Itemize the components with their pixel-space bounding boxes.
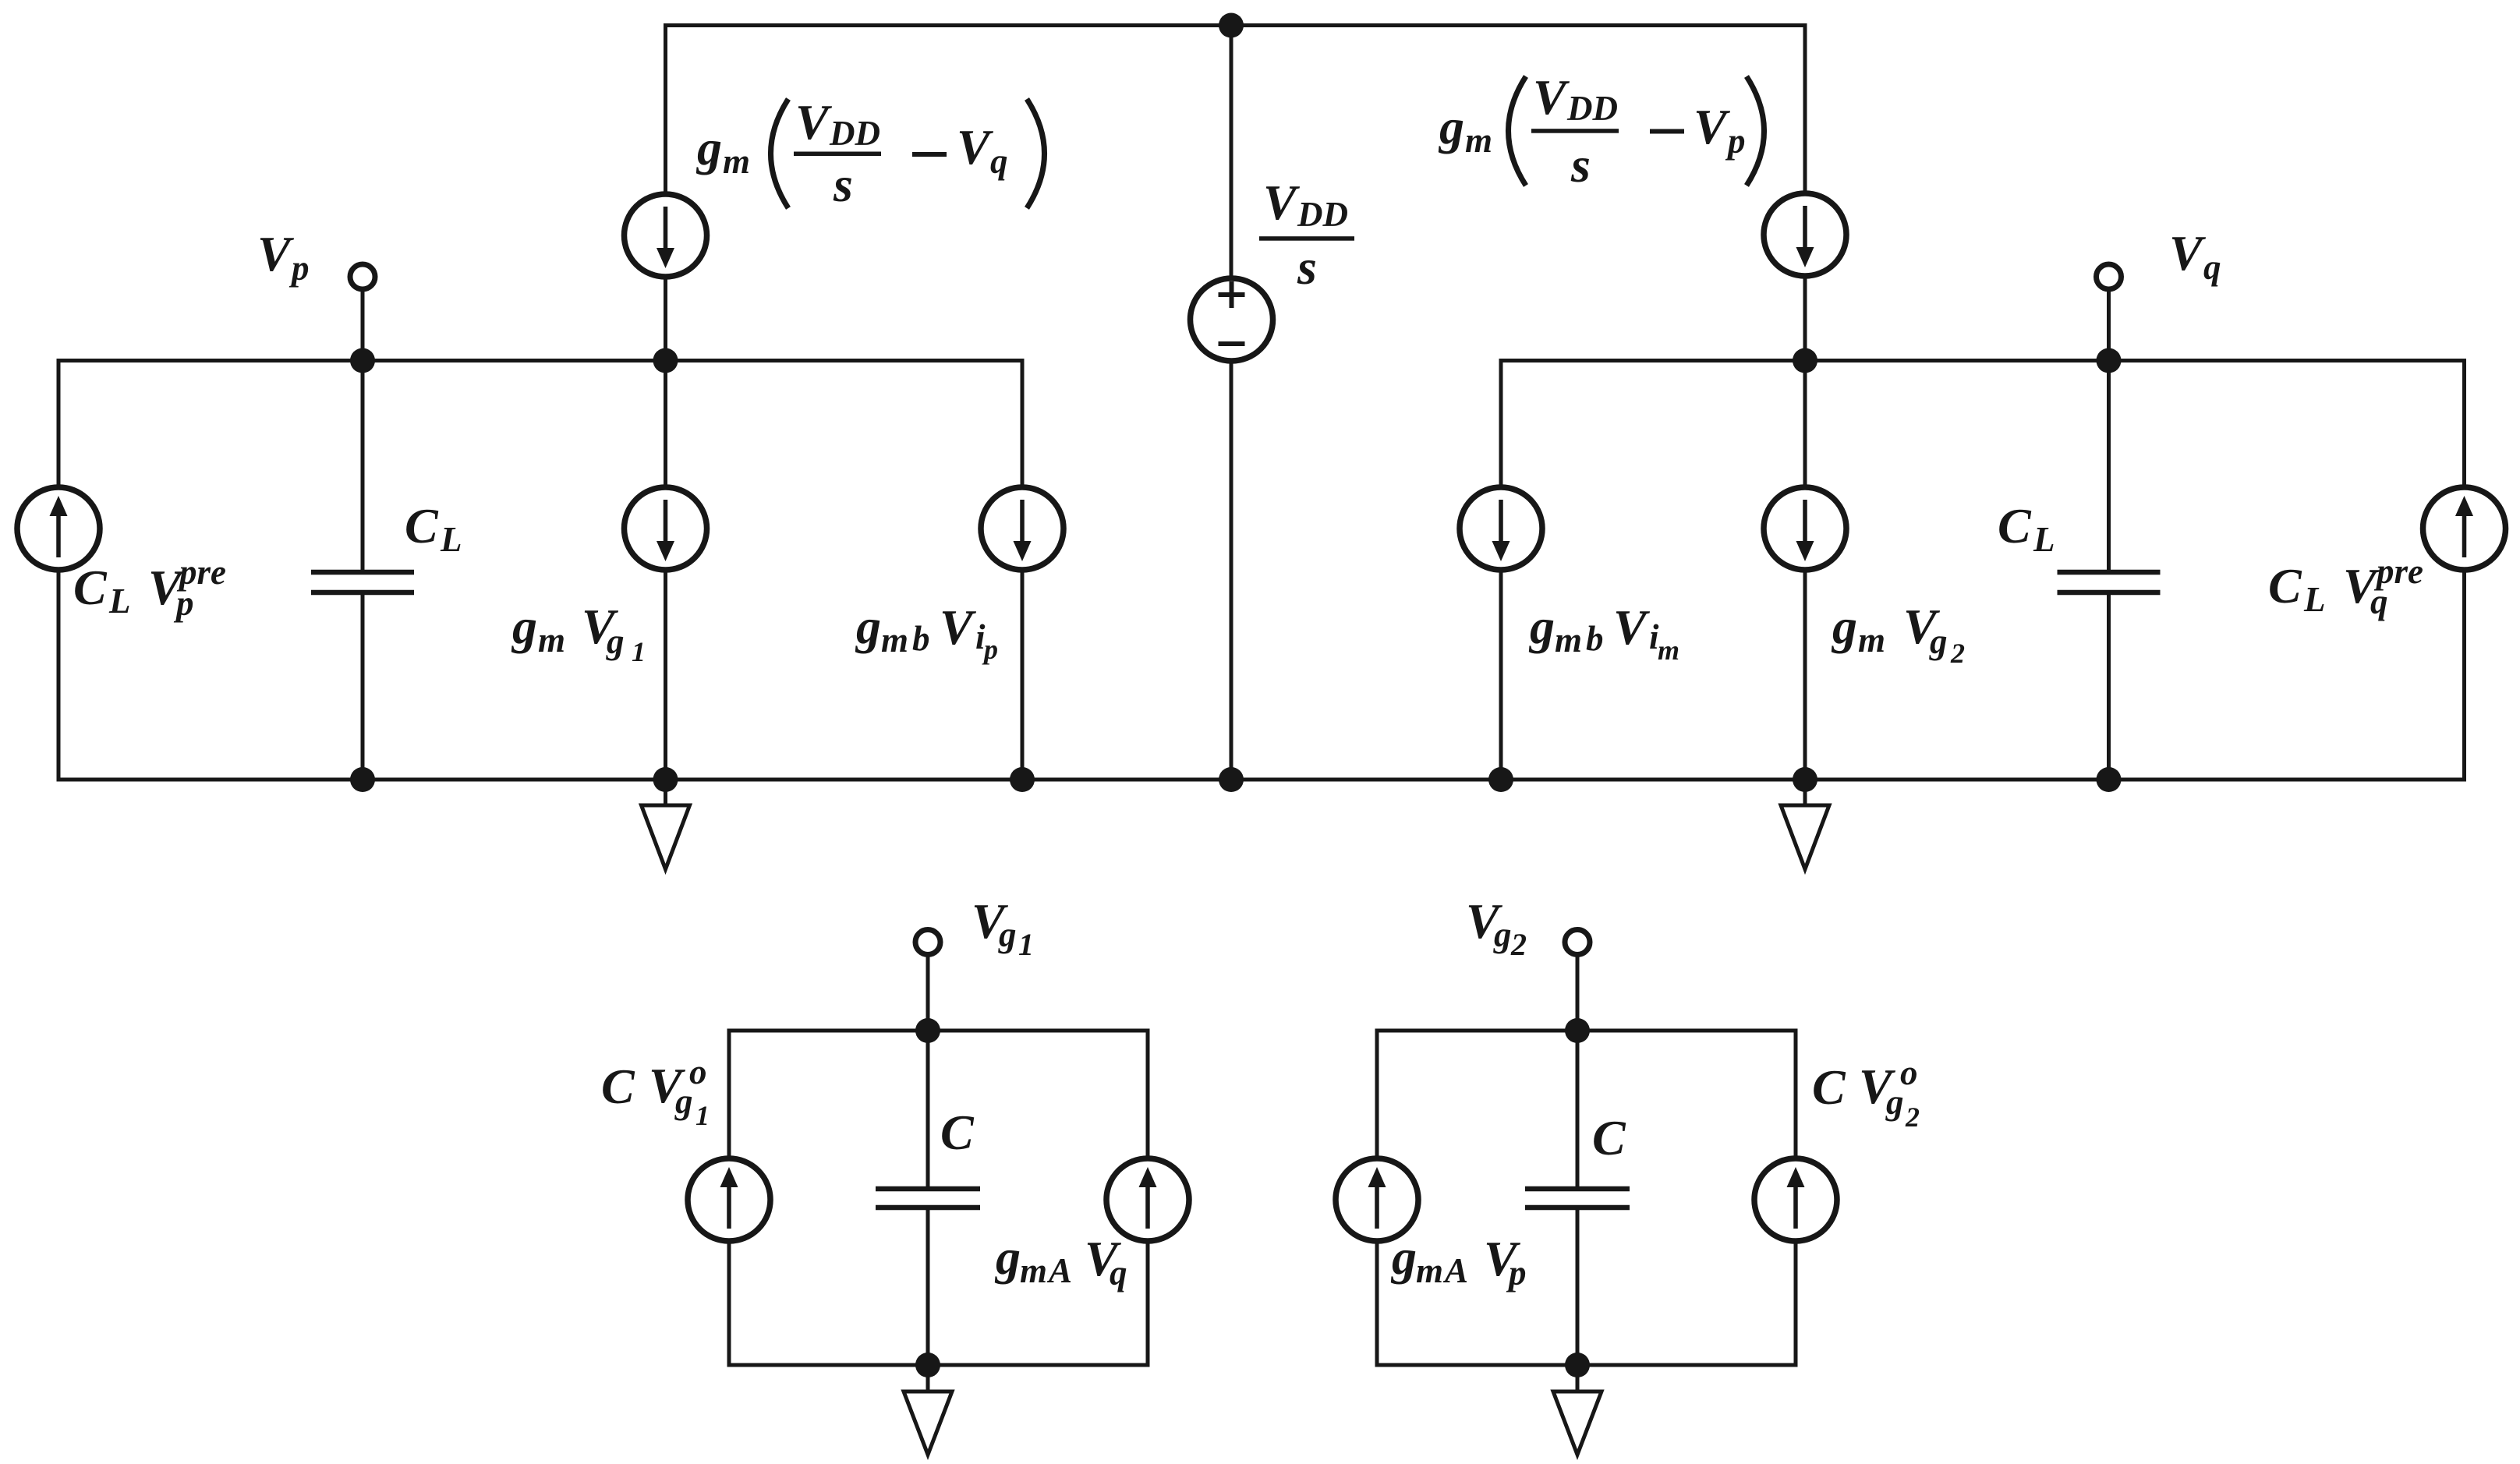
wire: Vg1 box top rail xyxy=(729,1029,1148,1033)
wire: right output rail (node Vq) xyxy=(1501,359,2465,362)
label gmb Vip xyxy=(855,599,998,665)
svg-text:V: V xyxy=(795,94,833,150)
svg-text:V: V xyxy=(257,226,295,281)
label gm(VDD/s - Vp) xyxy=(1438,69,1764,193)
wire: CL Vp^pre branch (x=75) xyxy=(57,359,61,782)
svg-text:g: g xyxy=(1885,1083,1904,1122)
label gmA Vp xyxy=(1390,1229,1527,1292)
svg-text:m: m xyxy=(1465,121,1492,160)
current source CL Vq^pre xyxy=(2423,487,2506,570)
wire: gmb Vip branch (x=1311) xyxy=(1021,359,1025,780)
junction: ground rail / gm Vg1 branch xyxy=(653,767,678,792)
label C Vg1^o xyxy=(601,1052,710,1131)
svg-text:C: C xyxy=(405,498,439,553)
wire: gm(VDD/s-Vp) branch (x=2315) xyxy=(1803,23,1807,780)
svg-text:m: m xyxy=(1020,1251,1047,1290)
svg-text:m: m xyxy=(1658,635,1679,666)
capacitor CL (node Vp) xyxy=(311,570,414,596)
svg-text:g: g xyxy=(1390,1229,1417,1285)
junction: top rail / VDD branch xyxy=(1219,13,1244,38)
svg-text:1: 1 xyxy=(1018,927,1034,962)
svg-text:q: q xyxy=(990,142,1008,181)
svg-text:V: V xyxy=(940,599,977,655)
junction: Vq node at rail xyxy=(2097,348,2122,373)
label gm Vg2 xyxy=(1831,599,1965,669)
wire: Vg1 terminal lead and cap top lead xyxy=(926,942,930,1190)
svg-text:V: V xyxy=(1694,99,1731,154)
svg-text:p: p xyxy=(1506,1254,1527,1292)
svg-text:m: m xyxy=(1416,1251,1443,1290)
voltage source VDD/s xyxy=(1191,278,1273,361)
current source gmb Vim xyxy=(1460,487,1542,570)
wire: Vq terminal lead xyxy=(2107,277,2111,361)
wire: CL Vq^pre branch (x=3160.5) xyxy=(2462,359,2466,782)
junction: right rail / gm Vg2 branch xyxy=(1793,348,1817,373)
wire: gm(VDD/s-Vq) branch (x=853.5) xyxy=(664,23,667,780)
svg-text:V: V xyxy=(1263,175,1301,230)
current source gm(VDD/s - Vq) xyxy=(625,194,707,277)
capacitor CL (node Vq) xyxy=(2058,570,2161,596)
junction: ground rail / CL cap left xyxy=(350,767,375,792)
svg-text:C: C xyxy=(1592,1110,1626,1165)
wire: CL capacitor top lead (x=465) xyxy=(361,361,365,573)
junction: ground rail / gmb Vip branch xyxy=(1010,767,1035,792)
svg-text:p: p xyxy=(982,634,998,665)
current source gm Vg1 xyxy=(625,487,707,570)
wire: C Vg1^o branch (x=935) xyxy=(727,1029,731,1367)
label CL (right capacitor) xyxy=(1998,498,2055,559)
svg-text:p: p xyxy=(288,249,310,288)
wire: capacitor C bottom lead (Vg1 box) xyxy=(926,1208,930,1365)
junction: Vg1 box ground node xyxy=(915,1353,940,1377)
svg-text:m: m xyxy=(1555,621,1582,660)
svg-text:g: g xyxy=(1831,599,1857,654)
svg-text:DD: DD xyxy=(1566,89,1618,128)
svg-text:b: b xyxy=(1586,619,1604,658)
svg-text:DD: DD xyxy=(829,114,880,153)
svg-text:V: V xyxy=(957,119,994,175)
current source gmA Vq xyxy=(1106,1158,1189,1241)
junction: Vg2 node xyxy=(1565,1018,1590,1043)
svg-text:1: 1 xyxy=(632,636,646,667)
svg-text:C: C xyxy=(73,560,108,615)
svg-text:C: C xyxy=(1812,1059,1846,1115)
svg-text:g: g xyxy=(511,599,537,654)
label C Vg2^o xyxy=(1812,1053,1920,1133)
svg-text:s: s xyxy=(1297,239,1317,295)
junction: ground rail / gmb Vim branch xyxy=(1488,767,1513,792)
current source C Vg1^o xyxy=(688,1158,770,1241)
label CL Vq^pre xyxy=(2268,552,2423,621)
wire: VDD top rail xyxy=(666,23,1806,27)
svg-text:2: 2 xyxy=(1950,638,1965,669)
wire: CL capacitor bottom lead (x=465) xyxy=(361,592,365,780)
svg-text:s: s xyxy=(1570,137,1591,193)
wire: CL capacitor bottom lead (x=2704.5) xyxy=(2107,592,2111,780)
wire: gmA Vq branch (x=1472) xyxy=(1146,1029,1150,1367)
wire: CL capacitor top lead (x=2704.5) xyxy=(2107,361,2111,573)
current source C Vg2^o xyxy=(1754,1158,1837,1241)
label Vg2 (terminal) xyxy=(1466,893,1527,962)
terminal Vq xyxy=(2097,264,2122,289)
svg-text:g: g xyxy=(855,599,881,654)
label gmb Vim xyxy=(1528,599,1679,666)
wire: left output rail (node Vp) xyxy=(58,359,1022,362)
current source gmb Vip xyxy=(981,487,1064,570)
current source gmA Vp xyxy=(1336,1158,1418,1241)
wire: VDD/s source branch (x=1579) xyxy=(1230,26,1233,780)
label Vp (terminal) xyxy=(257,226,310,288)
svg-text:A: A xyxy=(1442,1251,1468,1290)
current source gm(VDD/s - Vp) xyxy=(1764,193,1846,276)
svg-text:V: V xyxy=(1533,69,1570,125)
svg-text:L: L xyxy=(440,520,462,559)
ground (Vg2 box) xyxy=(1553,1365,1602,1455)
svg-text:m: m xyxy=(723,142,750,181)
current source CL Vp^pre xyxy=(17,487,100,570)
wire: gmA Vp branch (x=1766) xyxy=(1375,1029,1379,1367)
capacitor C (Vg1 box) xyxy=(876,1186,980,1211)
junction: Vg1 node xyxy=(915,1018,940,1043)
svg-text:b: b xyxy=(912,619,930,658)
wire: gmb Vim branch (x=1925) xyxy=(1499,359,1503,780)
junction: Vp node at rail xyxy=(350,348,375,373)
svg-text:g: g xyxy=(1929,622,1948,661)
svg-text:g: g xyxy=(695,120,722,175)
svg-text:C: C xyxy=(1998,498,2032,553)
svg-text:m: m xyxy=(881,621,908,660)
wire: Vg2 box top rail xyxy=(1377,1029,1796,1033)
label gm(VDD/s - Vq) xyxy=(695,94,1045,212)
wire: Vp terminal lead xyxy=(361,277,365,361)
svg-text:p: p xyxy=(173,584,194,623)
svg-text:C: C xyxy=(940,1105,975,1160)
svg-text:m: m xyxy=(1858,621,1885,660)
svg-text:g: g xyxy=(994,1229,1021,1285)
label gmA Vq xyxy=(994,1229,1127,1292)
junction: ground rail / gm Vg2 branch xyxy=(1793,767,1817,792)
svg-text:A: A xyxy=(1046,1251,1072,1290)
svg-text:q: q xyxy=(1110,1254,1127,1292)
svg-text:g: g xyxy=(998,915,1017,954)
current source gm Vg2 xyxy=(1764,487,1846,570)
svg-text:V: V xyxy=(1613,599,1651,655)
svg-text:q: q xyxy=(2370,582,2388,621)
terminal Vg2 xyxy=(1565,930,1590,955)
svg-text:g: g xyxy=(606,622,625,661)
label gm Vg1 xyxy=(511,599,646,667)
wire: Vg1 box bottom rail xyxy=(729,1363,1148,1367)
svg-text:g: g xyxy=(1493,915,1512,954)
svg-text:g: g xyxy=(1528,599,1555,654)
svg-text:V: V xyxy=(2169,225,2207,281)
svg-text:g: g xyxy=(674,1082,693,1121)
junction: left rail / gm Vg1 branch xyxy=(653,348,678,373)
junction: ground rail / CL cap right xyxy=(2097,767,2122,792)
svg-text:L: L xyxy=(2303,580,2326,619)
label Vg1 (terminal) xyxy=(972,893,1034,962)
wire: ground rail xyxy=(58,778,2465,782)
svg-text:s: s xyxy=(833,157,853,212)
ground (Vg1 box) xyxy=(904,1365,952,1455)
label VDD/s xyxy=(1259,175,1354,295)
svg-text:p: p xyxy=(1725,122,1746,161)
label CL (left capacitor) xyxy=(405,498,462,559)
svg-text:2: 2 xyxy=(1905,1102,1920,1133)
terminal Vg1 xyxy=(915,930,940,955)
wire: Vg2 terminal lead and cap top lead xyxy=(1576,942,1580,1190)
junction: Vg2 box ground node xyxy=(1565,1353,1590,1377)
svg-text:q: q xyxy=(2203,248,2221,287)
terminal Vp xyxy=(350,264,375,289)
ground (below gm Vg2) xyxy=(1781,780,1829,869)
svg-text:m: m xyxy=(538,621,565,660)
label Vq (terminal) xyxy=(2169,225,2221,287)
svg-text:C: C xyxy=(601,1059,635,1114)
svg-text:L: L xyxy=(108,582,131,621)
wire: C Vg2^o branch (x=2303) xyxy=(1794,1029,1798,1367)
svg-text:g: g xyxy=(1438,99,1464,154)
capacitor C (Vg2 box) xyxy=(1525,1186,1630,1211)
label CL Vp^pre xyxy=(73,553,226,623)
svg-text:C: C xyxy=(2268,558,2302,614)
svg-text:2: 2 xyxy=(1510,927,1527,962)
wire: Vg2 box bottom rail xyxy=(1377,1363,1796,1367)
wire: capacitor C bottom lead (Vg2 box) xyxy=(1576,1208,1580,1365)
svg-text:L: L xyxy=(2033,520,2055,559)
ground (below gm Vg1) xyxy=(642,780,690,869)
junction: ground rail / VDD source xyxy=(1219,767,1244,792)
svg-text:1: 1 xyxy=(695,1100,710,1131)
svg-text:DD: DD xyxy=(1297,195,1348,234)
